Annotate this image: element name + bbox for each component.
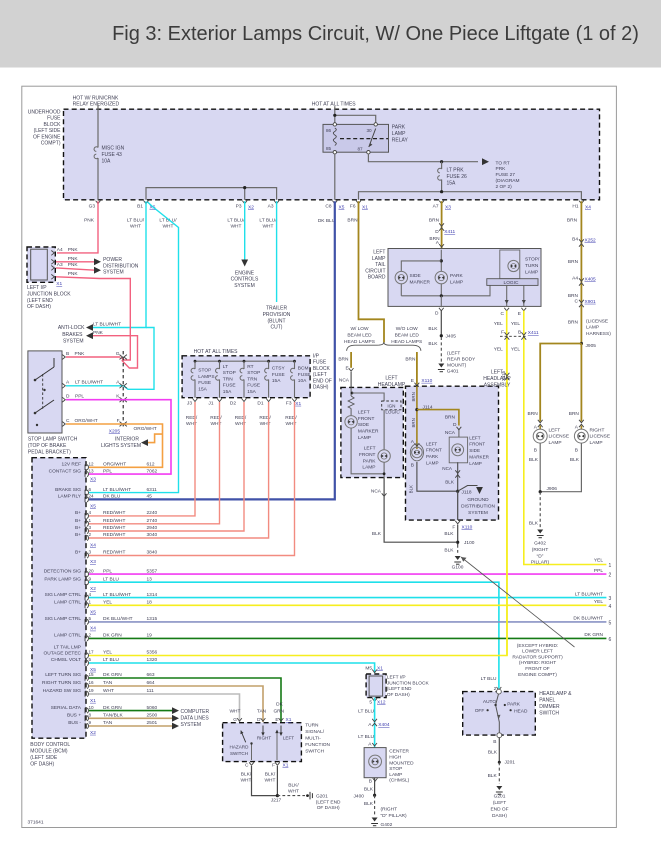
svg-text:FRONT: FRONT — [469, 442, 485, 447]
svg-text:YEL: YEL — [594, 558, 603, 564]
svg-text:6: 6 — [89, 487, 92, 492]
svg-text:(LEFT END: (LEFT END — [27, 298, 53, 304]
svg-text:ENGINE COMPT): ENGINE COMPT) — [518, 672, 557, 678]
svg-text:FUSE: FUSE — [247, 383, 260, 389]
svg-text:LAMPS: LAMPS — [198, 374, 214, 380]
I/P fuse block terminals — [193, 399, 198, 402]
svg-text:LAMP: LAMP — [469, 461, 482, 466]
svg-text:SIDE: SIDE — [410, 273, 421, 279]
svg-text:2: 2 — [89, 633, 92, 638]
svg-text:LT: LT — [223, 364, 228, 370]
terminals on underhood fuse block bottom edge — [96, 201, 101, 204]
svg-text:OFF: OFF — [475, 708, 485, 714]
wire BRN left variant — [350, 352, 352, 368]
svg-text:P3: P3 — [236, 204, 242, 210]
svg-text:HAZARD SW SIG: HAZARD SW SIG — [43, 688, 82, 694]
tail board outputs C and E — [506, 285, 508, 306]
svg-text:SIGNAL/: SIGNAL/ — [305, 729, 325, 735]
svg-text:C8: C8 — [325, 204, 331, 210]
svg-text:A3: A3 — [57, 262, 63, 268]
wire left inner bus — [146, 188, 277, 200]
wire fuse26 bus to F6 and H1 — [359, 192, 582, 200]
svg-text:LAMP CTRL: LAMP CTRL — [54, 600, 81, 606]
svg-text:24: 24 — [89, 494, 95, 499]
svg-text:FUSE 27: FUSE 27 — [496, 172, 516, 178]
wire relay pin87 to fuse 26 — [368, 154, 478, 162]
svg-text:LAMP: LAMP — [586, 325, 599, 331]
svg-text:SYSTEM: SYSTEM — [234, 283, 255, 289]
stop lamp switch internals — [42, 374, 44, 410]
svg-text:“D” PILLAR): “D” PILLAR) — [381, 813, 408, 819]
svg-text:LICENSE: LICENSE — [549, 434, 570, 440]
svg-text:LT BLU/: LT BLU/ — [259, 218, 277, 224]
svg-text:END OF: END OF — [490, 807, 508, 813]
svg-text:GRN: GRN — [273, 708, 284, 714]
svg-text:13: 13 — [89, 468, 95, 473]
svg-text:X5: X5 — [90, 609, 96, 615]
svg-text:BRN: BRN — [405, 357, 416, 363]
svg-text:BLK: BLK — [364, 787, 374, 793]
svg-text:LAMP: LAMP — [358, 435, 371, 441]
svg-text:BUS +: BUS + — [67, 713, 81, 719]
tail board internal wiring — [440, 250, 442, 272]
wires RED/WHT fuses to BCM B+ — [89, 402, 195, 516]
svg-text:4: 4 — [89, 510, 92, 515]
svg-text:87: 87 — [358, 147, 364, 152]
relay K1 PARK LAMP RELAY — [323, 124, 389, 152]
svg-text:LT BLU/WHT: LT BLU/WHT — [575, 591, 603, 597]
switch outputs C F — [249, 762, 254, 765]
svg-text:LAMP: LAMP — [362, 465, 375, 471]
svg-text:2: 2 — [89, 532, 92, 537]
svg-text:X405: X405 — [585, 277, 597, 283]
svg-text:(LEFT: (LEFT — [313, 372, 327, 378]
svg-text:PEDAL BRACKET): PEDAL BRACKET) — [28, 450, 71, 456]
svg-text:G: G — [116, 351, 120, 357]
wire YEL 5356 outage detect to tail board C — [89, 336, 507, 656]
svg-text:Fig 3: Exterior Lamps Circuit,: Fig 3: Exterior Lamps Circuit, W/ One Pi… — [112, 23, 639, 45]
stop lamp switch terminals — [62, 355, 65, 360]
svg-text:C: C — [245, 763, 249, 769]
wire BLK left headlamp to J100 — [384, 478, 456, 543]
svg-text:PNK: PNK — [68, 262, 79, 268]
svg-text:ENGINE: ENGINE — [235, 271, 255, 277]
svg-text:X2: X2 — [248, 205, 254, 211]
svg-text:FUSE: FUSE — [198, 380, 211, 386]
I/P fuse block box — [182, 356, 310, 398]
wire BLK to J100 and G100 — [457, 525, 459, 546]
svg-text:PARK: PARK — [392, 125, 406, 131]
svg-text:B: B — [518, 329, 521, 335]
svg-text:RELAY ENERGIZED: RELAY ENERGIZED — [73, 102, 120, 108]
CHMSL ground to G402 — [373, 778, 378, 781]
logic box (tail board) — [487, 279, 538, 286]
wire DK BLU/WHT 1315 to edge 5 — [89, 621, 606, 623]
svg-text:SWITCH: SWITCH — [305, 748, 324, 754]
wires BLK/WHT to J217 and G201 — [252, 766, 278, 796]
svg-text:(EXCEPT HYBRID:: (EXCEPT HYBRID: — [517, 643, 559, 649]
svg-text:MARKER: MARKER — [358, 429, 379, 435]
svg-text:MODULE (BCM): MODULE (BCM) — [30, 749, 68, 755]
svg-text:INTERIOR: INTERIOR — [115, 436, 139, 442]
svg-text:RED/WHT: RED/WHT — [103, 518, 125, 524]
svg-text:B+: B+ — [75, 518, 81, 524]
svg-text:BLK: BLK — [409, 485, 414, 493]
svg-text:HEAD LAMPS: HEAD LAMPS — [391, 339, 422, 345]
svg-text:HEADLAMP &: HEADLAMP & — [539, 691, 572, 697]
svg-text:DATA LINES: DATA LINES — [181, 716, 210, 722]
svg-text:OF DASH): OF DASH) — [317, 805, 340, 811]
svg-text:LEFT: LEFT — [364, 446, 376, 452]
wire LT BLU/WHT 1314 to edge 3 — [89, 597, 606, 599]
svg-text:PNK: PNK — [84, 218, 95, 224]
svg-text:LEFT I/P: LEFT I/P — [387, 675, 406, 681]
svg-text:RED/WHT: RED/WHT — [103, 525, 125, 531]
svg-text:6: 6 — [609, 637, 612, 643]
I/P fuse block bus — [195, 360, 295, 362]
svg-text:D: D — [66, 394, 70, 400]
svg-text:END OF: END OF — [313, 378, 332, 384]
svg-text:LIGHTS SYSTEM: LIGHTS SYSTEM — [101, 443, 141, 449]
wire WHT 111 hazard sw sig — [89, 694, 240, 722]
svg-text:WHT: WHT — [288, 789, 299, 795]
svg-text:5: 5 — [89, 616, 92, 621]
svg-text:LAMP: LAMP — [392, 131, 406, 137]
svg-text:B4: B4 — [572, 237, 578, 243]
svg-text:B+: B+ — [75, 525, 81, 531]
svg-text:HAZARD: HAZARD — [230, 745, 250, 750]
svg-text:PANEL: PANEL — [539, 698, 555, 704]
CHMSL center high mounted stop lamp — [364, 748, 386, 778]
svg-text:(LEFT SIDE: (LEFT SIDE — [34, 128, 62, 134]
svg-text:SYSTEM: SYSTEM — [103, 270, 124, 276]
svg-text:RED/: RED/ — [186, 415, 198, 421]
fuse MISC IGN FUSE 43 — [95, 148, 102, 159]
svg-text:JUNCTION BLOCK: JUNCTION BLOCK — [387, 680, 430, 686]
svg-text:LAMP: LAMP — [372, 256, 386, 262]
svg-text:RED/: RED/ — [285, 415, 297, 421]
svg-text:J400: J400 — [354, 794, 365, 800]
svg-text:LT BLU: LT BLU — [481, 676, 497, 682]
svg-text:A4: A4 — [57, 247, 63, 253]
svg-text:DETECTION SIG: DETECTION SIG — [44, 568, 82, 574]
svg-text:STOP: STOP — [223, 370, 236, 376]
svg-text:LEFT: LEFT — [426, 441, 437, 446]
svg-text:PNK: PNK — [68, 247, 79, 253]
svg-text:9: 9 — [89, 720, 92, 725]
wire TAN 664 right turn sig — [89, 686, 263, 722]
svg-text:(LEFT: (LEFT — [493, 800, 506, 806]
svg-text:X1: X1 — [56, 281, 62, 287]
svg-text:F6: F6 — [350, 204, 356, 210]
svg-text:F: F — [452, 524, 455, 530]
ground G402 right D pillar — [537, 530, 543, 534]
svg-text:LAMP CTRL: LAMP CTRL — [54, 633, 81, 639]
svg-text:X4: X4 — [585, 205, 591, 211]
svg-text:FUSE: FUSE — [223, 383, 236, 389]
svg-text:G402: G402 — [381, 822, 393, 828]
svg-text:BLK: BLK — [529, 521, 539, 527]
svg-text:B: B — [493, 739, 496, 745]
svg-text:J3: J3 — [187, 400, 192, 406]
fuse at x=219.5 — [219, 361, 221, 398]
svg-text:BLK/: BLK/ — [241, 772, 252, 778]
svg-text:W/ LOW: W/ LOW — [350, 326, 369, 332]
svg-text:B: B — [575, 447, 578, 453]
svg-text:LT PRK: LT PRK — [447, 168, 465, 174]
svg-text:2740: 2740 — [147, 518, 158, 524]
svg-text:TURN: TURN — [305, 723, 319, 729]
svg-text:REAR BODY: REAR BODY — [447, 357, 476, 363]
svg-text:COMPUTER: COMPUTER — [181, 709, 210, 715]
svg-text:SYSTEM: SYSTEM — [468, 510, 488, 516]
svg-text:I/P: I/P — [313, 354, 320, 360]
svg-text:HEAD: HEAD — [514, 709, 528, 715]
svg-text:B: B — [534, 447, 537, 453]
svg-text:BLK: BLK — [372, 531, 382, 537]
branch to front side marker — [417, 410, 459, 426]
svg-text:RIGHT TURN SIG: RIGHT TURN SIG — [42, 680, 81, 686]
svg-text:TO RT: TO RT — [496, 160, 510, 166]
assembly internals — [416, 386, 418, 449]
svg-text:BCM: BCM — [298, 366, 309, 372]
svg-text:LEFT: LEFT — [358, 409, 370, 415]
svg-text:NCA: NCA — [442, 466, 453, 471]
svg-text:9: 9 — [89, 576, 92, 581]
svg-text:X411: X411 — [528, 330, 539, 336]
svg-text:LT BLU/: LT BLU/ — [159, 218, 177, 224]
wire YEL 18 to edge 4 — [89, 604, 606, 606]
svg-text:LT BLU/WHT: LT BLU/WHT — [93, 321, 121, 327]
wire LT BLU 13 park lamp sig to dimmer switch — [89, 582, 499, 688]
svg-text:(CHMSL): (CHMSL) — [389, 778, 409, 784]
svg-text:HEADLAMP: HEADLAMP — [378, 382, 406, 388]
ground G401 — [438, 364, 444, 368]
svg-text:A3: A3 — [268, 204, 274, 210]
svg-text:J118: J118 — [462, 489, 472, 495]
svg-text:86: 86 — [326, 128, 332, 133]
svg-text:CUT): CUT) — [271, 325, 283, 331]
svg-text:G201: G201 — [494, 794, 506, 800]
svg-text:10A: 10A — [298, 378, 307, 384]
svg-text:4: 4 — [609, 604, 612, 610]
svg-text:RED/: RED/ — [210, 415, 222, 421]
svg-text:LT BLU/: LT BLU/ — [127, 218, 145, 224]
svg-text:1: 1 — [89, 518, 92, 523]
svg-text:MOUNT): MOUNT) — [447, 362, 467, 368]
svg-text:CENTER: CENTER — [389, 749, 409, 755]
svg-text:BRN: BRN — [347, 218, 358, 224]
svg-text:RED/WHT: RED/WHT — [103, 510, 125, 516]
svg-text:WHT: WHT — [230, 708, 241, 714]
svg-text:ORG/WHT: ORG/WHT — [103, 462, 126, 468]
svg-text:LEFT: LEFT — [469, 435, 480, 440]
wire PNK to power distribution arrows — [56, 261, 95, 263]
svg-text:B+: B+ — [75, 532, 81, 538]
svg-text:BLK: BLK — [445, 480, 455, 485]
svg-text:X3: X3 — [90, 559, 96, 565]
svg-text:J201: J201 — [505, 759, 516, 765]
svg-text:BUS -: BUS - — [68, 720, 81, 726]
left headlamp assembly box — [406, 386, 499, 520]
svg-text:LT BLU/: LT BLU/ — [227, 218, 245, 224]
svg-text:85: 85 — [326, 146, 332, 151]
svg-text:TRN: TRN — [247, 376, 257, 382]
svg-text:15A: 15A — [223, 389, 232, 395]
svg-text:COMPT): COMPT) — [41, 141, 61, 147]
wire PNK X1 to stop lamp switch B — [56, 277, 130, 360]
svg-text:PPL: PPL — [594, 568, 603, 574]
svg-text:(LEFT SIDE: (LEFT SIDE — [30, 755, 58, 761]
svg-text:1: 1 — [89, 600, 92, 605]
junction block LEFT I/P (top) — [27, 247, 55, 282]
svg-text:TAIL: TAIL — [375, 262, 385, 268]
ground G201 (dimmer) — [496, 786, 502, 790]
svg-text:LEFT: LEFT — [491, 370, 503, 376]
svg-text:B: B — [66, 351, 69, 357]
svg-text:BRN: BRN — [445, 415, 456, 421]
wire misc ign feed — [97, 105, 99, 200]
svg-text:PRK: PRK — [496, 166, 507, 172]
svg-text:X5: X5 — [339, 205, 345, 211]
svg-text:6311: 6311 — [147, 487, 158, 493]
svg-text:PNK: PNK — [75, 351, 86, 357]
stop lamp switch box — [28, 351, 62, 433]
svg-text:12V REF: 12V REF — [62, 462, 82, 468]
svg-text:FUSE: FUSE — [298, 372, 311, 378]
svg-text:X1: X1 — [286, 717, 292, 723]
svg-text:LEFT: LEFT — [283, 735, 294, 740]
wire PPL 5357 detection sig to edge 2 — [89, 573, 606, 575]
svg-text:MULTI-: MULTI- — [305, 736, 321, 742]
svg-text:J100: J100 — [464, 540, 475, 546]
wire relay feed — [334, 106, 336, 124]
svg-text:7062: 7062 — [147, 468, 158, 474]
svg-text:SYSTEM: SYSTEM — [181, 722, 202, 728]
svg-text:X110: X110 — [421, 378, 432, 384]
svg-text:J217: J217 — [271, 798, 282, 804]
svg-text:TRN: TRN — [223, 376, 233, 382]
svg-text:F: F — [501, 329, 504, 335]
svg-text:BOARD: BOARD — [368, 275, 386, 281]
svg-text:RADIATOR SUPPORT): RADIATOR SUPPORT) — [512, 654, 563, 660]
svg-text:LAMP: LAMP — [389, 772, 402, 778]
svg-text:(RIGHT: (RIGHT — [381, 807, 398, 813]
ground G100 — [455, 556, 461, 560]
svg-text:X1: X1 — [295, 401, 301, 407]
svg-text:BLK: BLK — [570, 457, 580, 463]
svg-text:CHMSL VOLT: CHMSL VOLT — [51, 657, 81, 663]
svg-text:ORG/WHT: ORG/WHT — [75, 418, 98, 424]
svg-text:DISTRIBUTION: DISTRIBUTION — [103, 263, 139, 269]
svg-text:BODY CONTROL: BODY CONTROL — [30, 742, 70, 748]
svg-text:LAMP: LAMP — [450, 280, 463, 286]
svg-text:TRAILER: TRAILER — [266, 306, 288, 312]
svg-text:WHT: WHT — [265, 778, 276, 784]
svg-text:RED/: RED/ — [259, 415, 271, 421]
svg-text:AUTO: AUTO — [483, 699, 497, 705]
svg-text:BRAKE SIG: BRAKE SIG — [55, 487, 81, 493]
svg-text:X5: X5 — [90, 503, 96, 509]
svg-text:LAMP: LAMP — [590, 440, 603, 446]
svg-text:LT TAIL LMP: LT TAIL LMP — [54, 645, 81, 651]
svg-text:D: D — [435, 229, 439, 235]
svg-text:HOT AT ALL TIMES: HOT AT ALL TIMES — [194, 349, 239, 355]
svg-text:MISC IGN: MISC IGN — [102, 146, 125, 152]
svg-text:LAMP RLY: LAMP RLY — [58, 494, 82, 500]
svg-text:OF ENGINE: OF ENGINE — [33, 134, 61, 140]
left headlamp grounds — [351, 428, 384, 474]
wire PNK branch to antilock brakes — [90, 336, 138, 368]
svg-text:M5: M5 — [365, 665, 372, 671]
svg-text:BLK/: BLK/ — [288, 783, 299, 789]
wire ORG/WHT stop switch C to interior lights / BCM 12V ref — [66, 424, 163, 467]
bulb left front side marker (assembly) — [449, 437, 467, 463]
ground G402 (chmsl) — [372, 818, 378, 822]
svg-text:“D”: “D” — [537, 553, 544, 559]
svg-text:15A: 15A — [272, 378, 281, 384]
svg-text:30: 30 — [367, 128, 373, 133]
svg-text:3: 3 — [89, 550, 92, 555]
svg-text:FRONT: FRONT — [359, 452, 376, 458]
svg-text:BLOCK: BLOCK — [313, 366, 331, 372]
svg-text:YEL: YEL — [494, 347, 503, 353]
fuse at x=268.6 — [268, 361, 270, 398]
svg-text:2240: 2240 — [147, 510, 158, 516]
wire LT BLU junction to CHMSL — [374, 698, 376, 748]
svg-text:CTSY: CTSY — [272, 366, 286, 372]
svg-text:BLK: BLK — [529, 457, 539, 463]
callout line to hybrid note — [461, 557, 575, 647]
bulb side marker (tail board) — [395, 271, 407, 283]
svg-text:15: 15 — [89, 672, 95, 677]
svg-text:SIG LAMP CTRL: SIG LAMP CTRL — [45, 616, 82, 622]
svg-text:HOT W/ RUN/CRNK: HOT W/ RUN/CRNK — [73, 95, 119, 101]
svg-text:BRN: BRN — [429, 218, 440, 224]
svg-text:JUNCTION BLOCK: JUNCTION BLOCK — [27, 291, 71, 297]
underhood fuse block box — [64, 109, 600, 200]
svg-text:HEADLAMP: HEADLAMP — [483, 376, 511, 382]
svg-text:BLK/: BLK/ — [265, 772, 276, 778]
svg-text:LT BLU/WHT: LT BLU/WHT — [75, 380, 103, 386]
svg-text:5: 5 — [89, 657, 92, 662]
svg-text:J1: J1 — [208, 400, 213, 406]
svg-text:RED/: RED/ — [235, 415, 247, 421]
svg-text:OF DASH): OF DASH) — [387, 692, 410, 698]
svg-text:X4: X4 — [90, 626, 96, 632]
ground G201 (left end of dash) — [306, 794, 309, 797]
svg-text:BEAM LED: BEAM LED — [347, 332, 372, 338]
svg-text:B1: B1 — [137, 204, 143, 210]
svg-text:PNK: PNK — [68, 256, 79, 262]
fuse at x=195 — [194, 361, 196, 398]
junction block LEFT I/P (lower) — [366, 674, 386, 698]
svg-text:17: 17 — [89, 650, 95, 655]
svg-text:X411: X411 — [444, 229, 455, 235]
svg-text:PARK: PARK — [426, 454, 439, 459]
svg-text:5: 5 — [609, 620, 612, 626]
svg-text:C: C — [501, 311, 505, 317]
wire BRN split to license lamps — [540, 344, 581, 422]
svg-text:TAN: TAN — [257, 708, 267, 714]
svg-text:CONTACT SIG: CONTACT SIG — [49, 468, 82, 474]
svg-text:D1: D1 — [257, 400, 263, 406]
svg-text:(RIGHT: (RIGHT — [532, 547, 549, 553]
svg-text:LAMP: LAMP — [426, 461, 439, 466]
svg-text:C: C — [575, 298, 579, 304]
svg-text:BRN: BRN — [528, 411, 539, 417]
svg-text:CONTROLS: CONTROLS — [231, 277, 259, 283]
